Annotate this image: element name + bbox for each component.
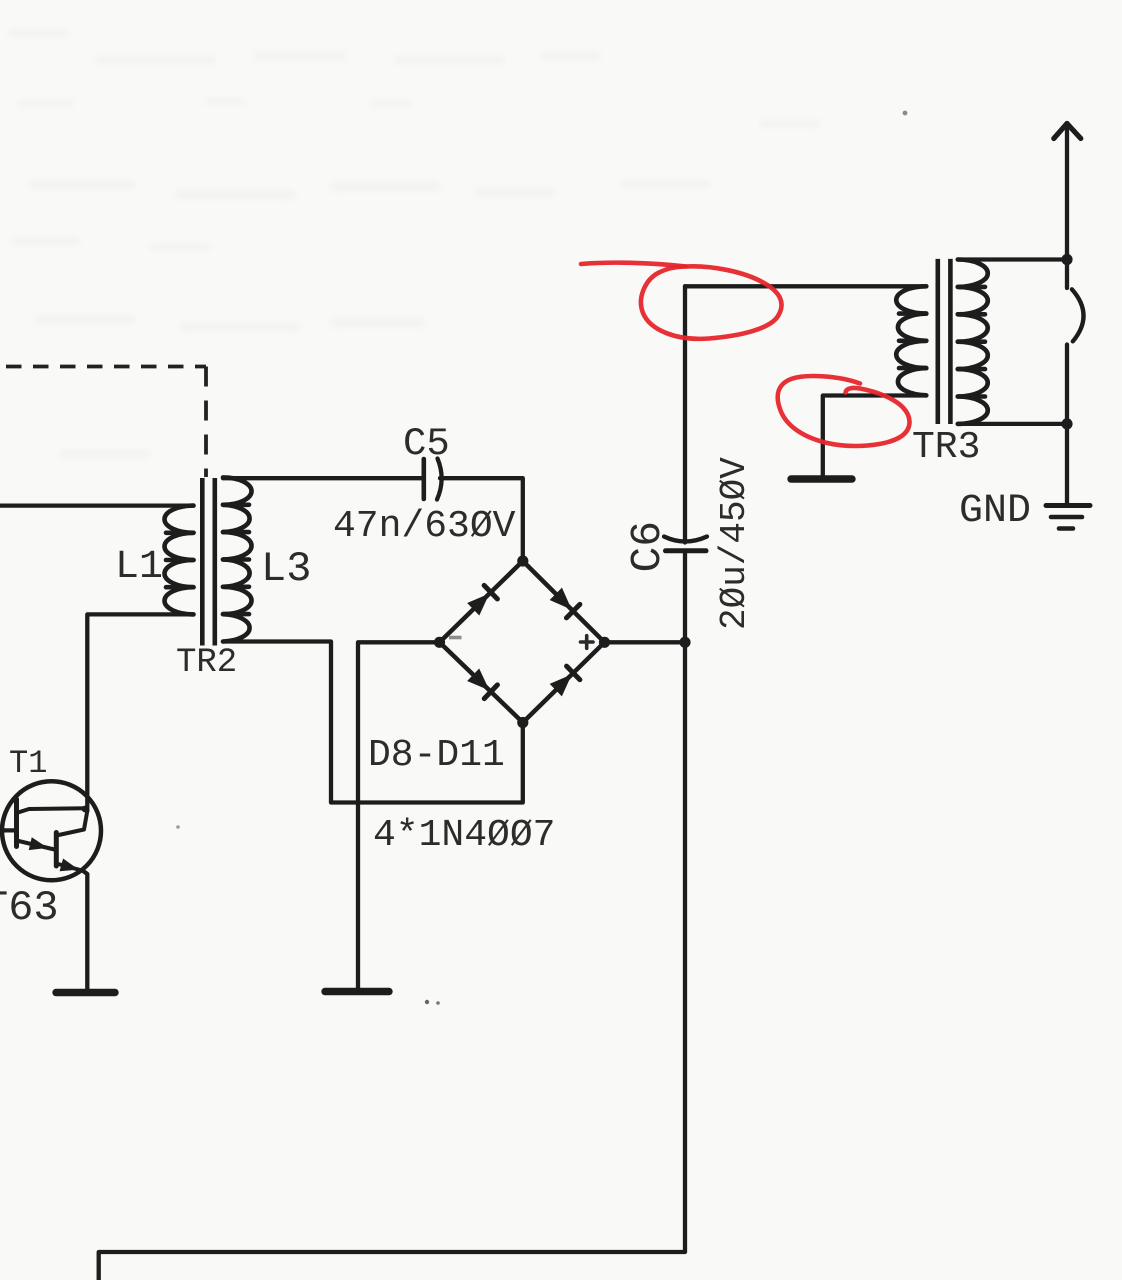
diode D11 (part of bridge D8-D11) — [549, 666, 580, 697]
junction node at (685.0,642.3) — [679, 637, 690, 648]
svg-text:2Øu/45ØV: 2Øu/45ØV — [714, 457, 755, 630]
wire TR3 secondary top to output rail — [958, 257, 1067, 261]
red pen tail stroke — [581, 263, 686, 267]
T1 base lead — [0, 828, 14, 832]
transistor T1 (Darlington) — [2, 781, 101, 880]
ground (T1 emitter) — [56, 989, 115, 996]
diode D8 (part of bridge D8-D11) — [467, 585, 498, 616]
wire-break arc on output rail — [1072, 289, 1084, 341]
dashed feedback line (top left) — [0, 365, 206, 369]
wire L1 top lead — [0, 503, 194, 507]
svg-text:L1: L1 — [115, 545, 163, 590]
wire L3 top to C5 — [223, 476, 422, 480]
arrow head — [1054, 124, 1081, 139]
wire L3 bottom to bridge AC bottom — [223, 642, 523, 803]
T1 collector lead (input stage) — [17, 808, 87, 813]
T1 emitter arrow (output stage) — [60, 858, 81, 875]
node DC+ rail: vertical wire x=685 — [683, 286, 687, 542]
inductor TR3 primary winding — [896, 286, 926, 395]
junction node at (522.8,722.5) — [517, 717, 528, 728]
capacitor C6 — [664, 537, 707, 551]
T1 base bar (output stage) — [54, 833, 59, 867]
junction node at (522.8,561.0) — [517, 555, 528, 566]
red pen circle around TR3 ground corner — [778, 376, 910, 446]
ground (bridge DC-) — [325, 988, 389, 995]
capacitor C5 — [424, 459, 442, 500]
bridge rectifier D8-D11 edges — [440, 561, 605, 723]
red pen circle around DC+ corner node — [641, 266, 782, 339]
transformer TR3 core — [938, 259, 951, 424]
junction node at (604.5,642.3) — [599, 637, 610, 648]
wire TR3 primary bottom to ground — [823, 396, 927, 476]
junction node at (439.5,642.3) — [434, 637, 445, 648]
wire L1 bottom lead to T1 collector — [87, 614, 193, 811]
output rail with arrow (top right) — [1065, 126, 1069, 504]
svg-text:TR3: TR3 — [912, 426, 980, 469]
faint scan ghosting — [8, 30, 820, 458]
label plus at bridge DC+ — [581, 636, 594, 649]
T1 emitter lead (input stage) — [17, 841, 55, 850]
svg-text:T63: T63 — [0, 884, 59, 932]
svg-text:4*1N4ØØ7: 4*1N4ØØ7 — [373, 814, 555, 857]
svg-text:D8-D11: D8-D11 — [368, 734, 505, 777]
svg-text:C6: C6 — [623, 521, 672, 573]
label minus at bridge DC- — [449, 636, 462, 640]
svg-text:T1: T1 — [9, 745, 47, 782]
T1 emitter lead (output stage) — [56, 864, 83, 871]
transformer TR2 core — [202, 478, 215, 646]
T1 base bar (input stage) — [14, 799, 19, 847]
wire bridge DC+ to C6 node — [605, 640, 686, 644]
svg-text:TR2: TR2 — [176, 644, 237, 682]
svg-text:GND: GND — [959, 489, 1031, 534]
T1 emitter arrow (input stage) — [29, 837, 50, 854]
T1 collector lead (output stage) — [56, 811, 87, 836]
ground GND (3-bar) — [1046, 506, 1090, 529]
inductor TR3 secondary winding — [958, 260, 988, 424]
inductor L1 (TR2 primary winding) — [164, 506, 193, 615]
scan speckles — [903, 111, 908, 116]
wire T1 emitter to ground — [83, 871, 87, 989]
wire C5 to bridge AC top — [440, 478, 523, 561]
svg-text:L3: L3 — [261, 545, 311, 593]
junction node at (1067,259.5) — [1061, 254, 1072, 265]
wire bridge DC- to ground — [358, 642, 440, 988]
diode D9 (part of bridge D8-D11) — [549, 587, 580, 618]
svg-text:C5: C5 — [403, 422, 450, 466]
svg-text:47n/63ØV: 47n/63ØV — [333, 505, 516, 548]
wire TR3 secondary bottom to output rail — [958, 422, 1067, 426]
wire C6 bottom down and across to lower-left output — [99, 553, 685, 1280]
inductor L3 (TR2 secondary winding) — [223, 477, 252, 641]
wire DC+ node to TR3 primary top — [685, 284, 926, 288]
junction node at (1067,423.9) — [1061, 418, 1072, 429]
ground (TR3 primary) — [791, 475, 852, 482]
diode D10 (part of bridge D8-D11) — [467, 668, 498, 699]
